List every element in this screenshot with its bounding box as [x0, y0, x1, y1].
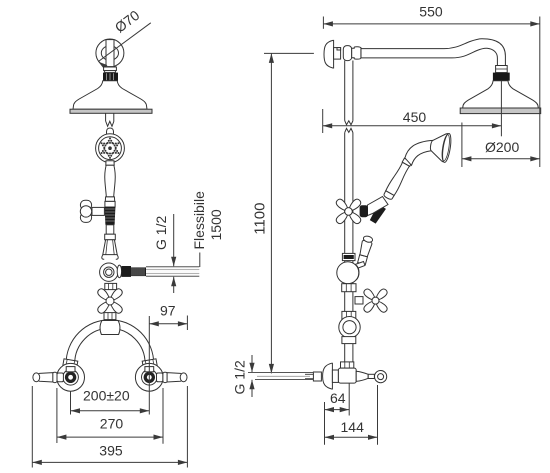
hose nut at ball — [117, 265, 121, 278]
shower arm with swan-neck bend — [361, 39, 505, 66]
bell rim band — [70, 109, 152, 113]
right arch nut — [142, 359, 157, 369]
bottom union escutcheon (side) — [323, 363, 333, 389]
bottom union: wall stub — [313, 372, 321, 381]
left arch nut — [63, 359, 78, 369]
overhead shower head bell (front view) — [73, 81, 147, 110]
hand shower head (side view) — [428, 131, 452, 163]
bracket clamp (dark) — [360, 205, 368, 217]
U-shaped supply arch — [66, 320, 154, 364]
svg-text:450: 450 — [403, 109, 427, 125]
leader line and label Ø70 — [98, 23, 151, 62]
pipe segment — [106, 225, 114, 234]
svg-text:Flessibile: Flessibile — [191, 191, 207, 250]
hex nut below ball — [105, 283, 117, 289]
knurled nut (dark) — [103, 73, 118, 81]
wall flange (front view) — [96, 39, 124, 67]
svg-text:64: 64 — [330, 390, 346, 406]
svg-text:270: 270 — [100, 416, 124, 432]
cross handle lower (side view) — [355, 297, 363, 304]
riser pipe (side view) — [344, 61, 346, 121]
svg-text:200±20: 200±20 — [83, 388, 130, 404]
diverter ball body (front view) — [100, 263, 118, 281]
left lever handle — [57, 373, 63, 382]
knurled nut (dark, side) — [493, 73, 510, 81]
right lever handle — [157, 373, 163, 382]
svg-text:97: 97 — [160, 303, 176, 319]
supply hose lines — [248, 372, 313, 374]
right wall escutcheon — [135, 363, 163, 391]
bell rim band (side, shaded) — [460, 108, 541, 114]
hand shower (side view): handle — [383, 158, 413, 201]
union outlet cone — [356, 371, 368, 381]
nut below ball (side) — [342, 284, 356, 292]
flexible hose — [146, 267, 199, 276]
svg-text:550: 550 — [419, 3, 443, 19]
union body with riser nut — [341, 362, 354, 368]
svg-text:144: 144 — [341, 419, 365, 435]
cross handle upper (side view) — [335, 198, 362, 225]
svg-text:G 1/2: G 1/2 — [232, 360, 248, 394]
top wall flange (side view) — [324, 40, 334, 68]
pipe break symbol — [345, 121, 353, 125]
tee body — [343, 46, 351, 61]
slide bracket cone — [103, 240, 117, 255]
svg-text:395: 395 — [99, 442, 123, 458]
nut below lower cross (side) — [342, 311, 356, 319]
svg-text:1500: 1500 — [208, 209, 224, 240]
svg-text:G 1/2: G 1/2 — [153, 216, 169, 250]
left wall escutcheon — [57, 363, 85, 391]
collar rings above bell — [496, 66, 508, 73]
cross handle (front view X) — [96, 287, 123, 314]
nut below cross handle — [104, 313, 116, 320]
spray nozzle dot clusters — [101, 138, 120, 159]
collar under flange — [104, 67, 117, 71]
arch ring (side view) — [339, 317, 360, 338]
broken pipe stub with break symbol — [105, 113, 107, 121]
svg-text:Ø200: Ø200 — [485, 139, 519, 155]
hand shower handle (front view) — [106, 161, 114, 166]
hose coil (dark) — [131, 267, 146, 276]
svg-text:1100: 1100 — [252, 203, 269, 235]
bracket arm — [367, 197, 389, 217]
union collar — [332, 370, 338, 382]
overhead shower bell (side view) — [463, 81, 539, 108]
hand shower spray face (front view) — [96, 134, 125, 163]
slide bracket collar — [105, 234, 116, 240]
lever end-view circle — [375, 371, 387, 383]
diverter ball (side view) — [342, 253, 355, 260]
arch center connector — [100, 321, 120, 335]
vertical pipe through flange — [106, 40, 114, 67]
conical hose spring (dark) — [105, 207, 116, 225]
hand shower hose spring (dark) — [369, 204, 386, 224]
diverter lever (side view) — [357, 235, 374, 265]
cross handle valve (side view) — [92, 207, 104, 215]
bell centerline — [500, 81, 502, 137]
hand shower hanger nub — [106, 128, 113, 134]
hose connector block (dark) — [121, 266, 131, 277]
bracket hook ears — [102, 255, 104, 260]
flange collar — [334, 48, 341, 60]
arm connector bulge — [352, 47, 362, 59]
handle end collar — [105, 197, 114, 202]
hand shower neck — [405, 140, 433, 165]
collar below ring — [342, 337, 356, 344]
